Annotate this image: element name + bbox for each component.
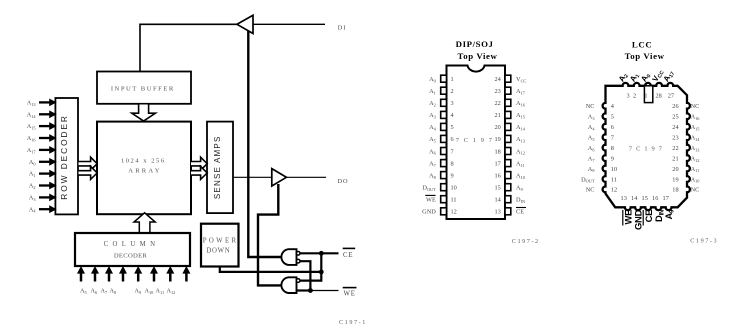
wire: DO net sense amps to buffer U4 bbox=[233, 176, 272, 178]
pin 7 (A6) of U2 bbox=[441, 148, 447, 155]
svg-text:GND: GND bbox=[422, 209, 436, 216]
pin 22 (A16) of U2 bbox=[505, 99, 511, 106]
svg-text:C 1 9 7 - 2: C 1 9 7 - 2 bbox=[512, 238, 538, 245]
svg-text:7: 7 bbox=[611, 135, 614, 142]
svg-text:6: 6 bbox=[611, 124, 614, 131]
row decoder block bbox=[55, 98, 78, 214]
sense amps block bbox=[207, 122, 233, 214]
pin 23 (A17) of U2 bbox=[505, 87, 511, 94]
svg-text:9: 9 bbox=[451, 172, 454, 179]
wire: DI input net from DI pin to buffer U3 input bbox=[253, 23, 325, 25]
svg-text:9: 9 bbox=[611, 155, 614, 162]
junction on CE net at gate input wire bbox=[319, 251, 324, 256]
svg-text:ARRAY: ARRAY bbox=[128, 168, 161, 175]
wire: CE net branch to G2 inverted input bbox=[300, 272, 321, 281]
op-amp U3 input-data buffer (triangle, points left) bbox=[237, 15, 253, 33]
pin column-address input arrow 6 bbox=[153, 273, 156, 282]
wire: CE net branch down to power-down line bbox=[320, 253, 322, 272]
svg-text:15: 15 bbox=[642, 195, 648, 202]
pin A0 row-address input arrow bbox=[39, 161, 50, 163]
svg-text:13: 13 bbox=[621, 195, 627, 202]
svg-text:2: 2 bbox=[633, 93, 636, 100]
svg-text:7: 7 bbox=[451, 148, 454, 155]
node WE-bar pin label bbox=[343, 287, 357, 289]
pin column-address input arrow 3 bbox=[108, 273, 111, 282]
svg-text:18: 18 bbox=[672, 187, 678, 194]
wire: U3 output to input buffer, horizontal + vertical drop bbox=[140, 24, 237, 71]
svg-text:27: 27 bbox=[668, 93, 674, 100]
pin A15 row-address input arrow bbox=[39, 125, 50, 127]
overline for WE-bar bottom label bbox=[622, 210, 624, 226]
inversion bubble G2 input pin 1 bbox=[296, 279, 300, 283]
memory array block 1024x256 bbox=[97, 122, 191, 215]
pin 21 (A15) of U2 bbox=[505, 111, 511, 118]
svg-text:14: 14 bbox=[495, 197, 502, 204]
pin column-address input arrow 5 bbox=[137, 273, 140, 282]
pin column-address input arrow 8 bbox=[185, 273, 188, 282]
pin 4 (A3) of U2 bbox=[441, 111, 447, 118]
chip U2 package body DIP-24 with pin-1 notch bbox=[447, 66, 506, 220]
pin A1 row-address input arrow bbox=[39, 172, 50, 174]
pin 14 (DIN) of U2 bbox=[505, 196, 511, 203]
pin 9 (A8) of U2 bbox=[441, 172, 447, 179]
svg-text:20: 20 bbox=[495, 124, 501, 131]
pin A3 row-address input arrow bbox=[39, 196, 50, 198]
svg-text:19: 19 bbox=[495, 136, 501, 143]
svg-text:NC: NC bbox=[586, 187, 595, 194]
svg-text:CE: CE bbox=[343, 252, 353, 259]
svg-text:DECODER: DECODER bbox=[114, 253, 148, 260]
pin 20 (A14) of U2 bbox=[505, 123, 511, 130]
svg-text:20: 20 bbox=[672, 166, 678, 173]
pin A17 row-address input arrow bbox=[39, 149, 50, 151]
wire: write-enable net from gate G1 output up to U3 enable (thick) bbox=[248, 31, 280, 258]
svg-text:C 1 9 7 - 1: C 1 9 7 - 1 bbox=[339, 319, 365, 326]
svg-text:17: 17 bbox=[663, 195, 669, 202]
svg-text:DOWN: DOWN bbox=[206, 248, 230, 255]
svg-text:12: 12 bbox=[611, 187, 617, 194]
pin 3 (A2) of U2 bbox=[441, 99, 447, 106]
svg-text:1: 1 bbox=[644, 93, 647, 100]
svg-text:13: 13 bbox=[495, 209, 501, 216]
svg-text:POWER: POWER bbox=[203, 238, 239, 245]
svg-text:11: 11 bbox=[451, 197, 457, 204]
svg-text:28: 28 bbox=[655, 93, 661, 100]
svg-text:26: 26 bbox=[672, 103, 678, 110]
pin 8 (A7) of U2 bbox=[441, 160, 447, 167]
svg-text:INPUT BUFFER: INPUT BUFFER bbox=[111, 85, 175, 92]
wire: WE net into G2 direct input bbox=[297, 289, 311, 291]
pin 10 (DOUT) of U2 bbox=[441, 184, 447, 191]
svg-text:7 C 1 9 7: 7 C 1 9 7 bbox=[456, 137, 494, 144]
svg-text:8: 8 bbox=[451, 160, 454, 167]
pin A16 row-address input arrow bbox=[39, 137, 50, 139]
svg-text:12: 12 bbox=[451, 209, 457, 216]
junction on CE net at power-down line bbox=[319, 270, 324, 275]
svg-text:3: 3 bbox=[451, 100, 454, 107]
pin column-address input arrow 4 bbox=[122, 273, 125, 282]
wire: hollow arrow array to sense amps (upper) bbox=[191, 157, 207, 170]
svg-text:NC: NC bbox=[691, 187, 700, 194]
pin 1 index marker on U5 bbox=[644, 86, 652, 103]
svg-text:Top View: Top View bbox=[625, 51, 665, 61]
svg-text:DIP/SOJ: DIP/SOJ bbox=[456, 39, 494, 49]
svg-text:3: 3 bbox=[627, 93, 630, 100]
svg-text:25: 25 bbox=[672, 114, 678, 121]
input buffer block bbox=[97, 72, 191, 104]
svg-text:CE: CE bbox=[516, 209, 524, 216]
svg-text:2: 2 bbox=[451, 88, 454, 95]
wire: hollow arrow array to sense amps (lower) bbox=[191, 166, 207, 179]
pin 13 (CE-bar) of U2 bbox=[505, 208, 511, 215]
and-gate G2 (output enable, input CE-bar inverted + WE direct) bbox=[281, 277, 296, 293]
pin 12 (GND) of U2 bbox=[441, 208, 447, 215]
wire: hollow arrow column decoder to array bbox=[134, 213, 155, 233]
svg-text:16: 16 bbox=[495, 172, 501, 179]
svg-text:11: 11 bbox=[611, 176, 617, 183]
wire: CE net horizontal run to POWER DOWN block bbox=[220, 266, 321, 272]
inversion bubble G1 input pin 2 bbox=[296, 259, 300, 263]
svg-text:21: 21 bbox=[495, 112, 501, 119]
wire: WE net junction to WE pin bbox=[310, 290, 338, 292]
svg-text:NC: NC bbox=[691, 103, 700, 110]
svg-text:COLUMN: COLUMN bbox=[104, 241, 160, 248]
pin A4 row-address input arrow bbox=[39, 208, 50, 210]
wire: output-enable net gate G2 output to U4 enable (thick) bbox=[258, 184, 281, 285]
svg-text:22: 22 bbox=[495, 100, 501, 107]
svg-text:10: 10 bbox=[611, 166, 617, 173]
svg-text:22: 22 bbox=[672, 145, 678, 152]
svg-text:21: 21 bbox=[672, 155, 678, 162]
pin 24 (VCC) of U2 bbox=[505, 75, 511, 82]
wire: hollow arrow row decoder to array (lower) bbox=[79, 166, 98, 179]
svg-text:Top View: Top View bbox=[458, 51, 498, 61]
svg-text:DI: DI bbox=[338, 24, 347, 31]
chip U5 package body LCC-28 outline with castellations bbox=[603, 83, 690, 210]
svg-text:ROW DECODER: ROW DECODER bbox=[59, 114, 69, 200]
svg-text:24: 24 bbox=[495, 76, 502, 83]
pin 5 (A4) of U2 bbox=[441, 123, 447, 130]
wire: hollow arrow input buffer to array bbox=[132, 105, 156, 122]
svg-text:1: 1 bbox=[451, 76, 454, 83]
svg-text:SENSE AMPS: SENSE AMPS bbox=[213, 136, 222, 200]
svg-text:17: 17 bbox=[495, 160, 501, 167]
svg-text:DO: DO bbox=[338, 178, 349, 185]
svg-text:5: 5 bbox=[611, 114, 614, 121]
pin 16 (A10) of U2 bbox=[505, 172, 511, 179]
svg-text:14: 14 bbox=[631, 195, 638, 202]
svg-text:16: 16 bbox=[652, 195, 658, 202]
column decoder block bbox=[75, 233, 190, 266]
and-gate G1 (write control, inputs CE-bar and WE-bar inverted) bbox=[281, 249, 296, 265]
svg-text:WE: WE bbox=[344, 291, 356, 298]
svg-text:7 C 1 9 7: 7 C 1 9 7 bbox=[629, 145, 663, 152]
wire: CE net pin to G1 input (thick) bbox=[300, 252, 339, 254]
svg-text:NC: NC bbox=[586, 103, 595, 110]
svg-text:19: 19 bbox=[672, 176, 678, 183]
node CE-bar pin label bbox=[343, 247, 356, 249]
svg-text:LCC: LCC bbox=[632, 39, 652, 49]
svg-text:23: 23 bbox=[495, 88, 501, 95]
pin 17 (A11) of U2 bbox=[505, 160, 511, 167]
svg-text:8: 8 bbox=[611, 145, 614, 152]
pin column-address input arrow 7 bbox=[169, 273, 172, 282]
pin A2 row-address input arrow bbox=[39, 184, 50, 186]
pin 18 (A12) of U2 bbox=[505, 148, 511, 155]
wire: hollow arrow row decoder to array (upper) bbox=[79, 157, 98, 170]
pin 6 (A5) of U2 bbox=[441, 135, 447, 142]
svg-text:WE: WE bbox=[426, 197, 436, 204]
svg-text:15: 15 bbox=[495, 185, 501, 192]
pin A13 row-address input arrow bbox=[39, 101, 50, 103]
svg-text:24: 24 bbox=[672, 124, 679, 131]
pin column-address input arrow 1 bbox=[80, 273, 83, 282]
pin 19 (A13) of U2 bbox=[505, 135, 511, 142]
inversion bubble G1 input pin 1 bbox=[296, 252, 300, 256]
pin A14 row-address input arrow bbox=[39, 113, 50, 115]
power down block bbox=[201, 224, 239, 267]
svg-text:5: 5 bbox=[451, 124, 454, 131]
svg-text:6: 6 bbox=[451, 136, 454, 143]
svg-text:10: 10 bbox=[451, 185, 457, 192]
overline for CE-bar bottom label bbox=[642, 210, 644, 226]
wire: WE net G1 lower input to WE line bbox=[300, 261, 310, 290]
pin 2 (A1) of U2 bbox=[441, 87, 447, 94]
svg-text:C 1 9 7 - 3: C 1 9 7 - 3 bbox=[690, 237, 716, 244]
junction on WE net bbox=[308, 288, 313, 293]
pin 11 (WE-bar) of U2 bbox=[441, 196, 447, 203]
pin 1 (A0) of U2 bbox=[441, 75, 447, 82]
pin 15 (A9) of U2 bbox=[505, 184, 511, 191]
op-amp U4 output-data buffer (triangle, points right) bbox=[272, 169, 287, 186]
svg-text:18: 18 bbox=[495, 148, 501, 155]
pin column-address input arrow 2 bbox=[94, 273, 97, 282]
svg-text:1024 x 256: 1024 x 256 bbox=[121, 157, 166, 164]
svg-text:23: 23 bbox=[672, 135, 678, 142]
wire: DO net buffer to DO pin bbox=[286, 176, 326, 178]
